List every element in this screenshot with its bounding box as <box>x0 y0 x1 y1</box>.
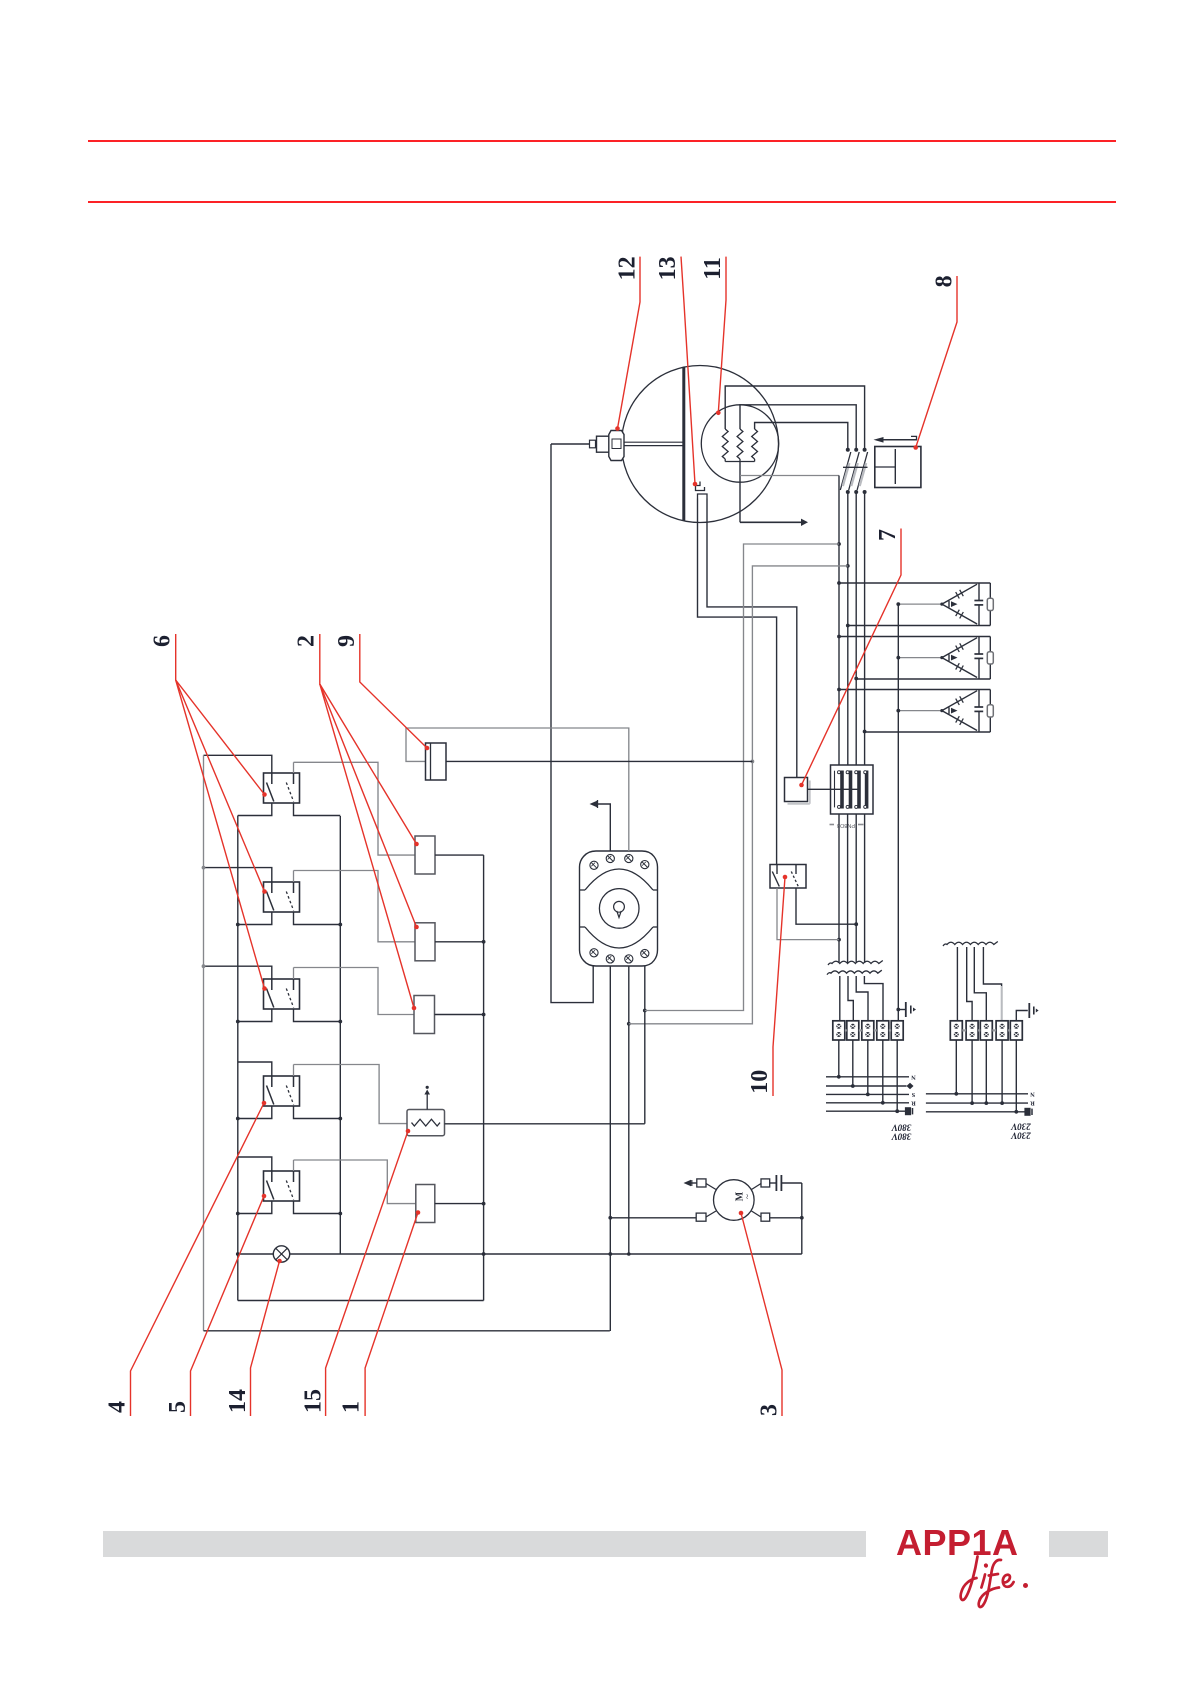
wire C1 out <box>435 1203 484 1205</box>
bus gray left <box>203 755 205 1331</box>
mains 380V line R <box>826 1102 909 1104</box>
wire contactor out 1 <box>838 814 840 963</box>
svg-text:APP1A: APP1A <box>896 1522 1019 1563</box>
pump vent arrow <box>691 1182 697 1184</box>
wire TB1 to PE <box>896 1040 898 1111</box>
header rule bottom <box>88 201 1116 203</box>
connector box 9 <box>426 743 447 780</box>
plug connector C <box>854 448 858 452</box>
wire TB2 to R b <box>985 1040 987 1103</box>
wire TR1 sec 4 <box>864 976 883 1021</box>
group unit U2 <box>839 636 990 638</box>
component C1 <box>416 1185 435 1223</box>
svg-text:14: 14 <box>225 1389 251 1413</box>
switch S3 <box>264 979 300 1009</box>
heater resistor R1 <box>722 429 728 459</box>
header rule top <box>88 140 1116 142</box>
wire TR2 out 4 <box>983 947 1001 1021</box>
group unit U1 <box>839 582 990 584</box>
mains 380V line PE <box>826 1110 905 1112</box>
solenoid valve EV3 <box>414 996 435 1034</box>
group unit U3 <box>839 689 990 691</box>
wire TB2 to N <box>955 1040 957 1094</box>
bus valve common <box>483 855 485 1300</box>
wire EV3 out <box>435 1014 484 1016</box>
svg-text:4: 4 <box>105 1401 131 1413</box>
svg-text:380V: 380V <box>891 1122 913 1132</box>
svg-text:7: 7 <box>875 529 901 541</box>
wire S1 lamp tap <box>293 762 295 773</box>
wire S3 feed <box>204 966 272 979</box>
wire S5 lamp tap <box>293 1160 295 1171</box>
svg-text:9: 9 <box>334 635 360 647</box>
transformer TR2 winding <box>943 942 998 947</box>
wire TR2 out 2 <box>967 947 972 1021</box>
pilot lamp L14 <box>238 1253 273 1255</box>
wire contactor out 4 <box>864 814 866 963</box>
svg-text:380V: 380V <box>891 1132 913 1142</box>
footer bar <box>103 1531 866 1557</box>
connector tie bar <box>843 466 868 468</box>
ECU screw terminals <box>590 861 598 869</box>
mains 380V line N <box>826 1076 909 1078</box>
phase wire C vertical <box>855 492 857 765</box>
bus black left <box>237 816 239 1301</box>
boiler vessel <box>622 366 779 523</box>
contactor KM1 <box>831 765 874 814</box>
svg-text:R: R <box>911 1099 916 1106</box>
wire thermostat right leg <box>707 499 797 778</box>
steam outlet arrow <box>740 521 801 523</box>
wire S4 bottom right <box>294 1106 341 1119</box>
safety thermostat T13 <box>696 482 705 491</box>
wire S4 to R15 <box>294 1065 408 1124</box>
heating element housing <box>701 405 778 482</box>
wire S3 to EV3 <box>294 968 415 1015</box>
wire bottom link U <box>238 1300 484 1302</box>
svg-text:8: 8 <box>931 275 957 287</box>
mains 380V line S <box>826 1093 909 1095</box>
pump capacitor <box>770 1182 777 1184</box>
svg-text:11: 11 <box>700 257 726 280</box>
bus switch returns <box>339 816 341 1254</box>
wire pump left <box>610 1217 696 1219</box>
svg-text:1: 1 <box>339 1401 365 1413</box>
wire EV2 out <box>435 941 484 943</box>
wire S4 lamp tap <box>293 1065 295 1077</box>
level probe rod <box>624 441 683 443</box>
wire S2 feed <box>204 868 272 882</box>
wire S10 right out <box>796 888 856 924</box>
wire thermostat left leg <box>698 499 777 865</box>
wire S2 to EV2 <box>294 871 416 942</box>
logo life script <box>961 1557 1014 1608</box>
ground symbol right <box>1016 1011 1028 1021</box>
wire heater net branch <box>645 544 839 1011</box>
svg-text:10: 10 <box>747 1070 773 1094</box>
pump terminal TR <box>761 1179 770 1187</box>
wire S2 lamp tap <box>293 871 295 883</box>
wire bottom frame <box>204 1330 610 1332</box>
wire TB2 to R c <box>1001 1040 1003 1103</box>
wire heater R2 to bundle <box>740 405 856 450</box>
svg-text:13: 13 <box>655 256 681 280</box>
mains 380V line 2 <box>826 1085 907 1087</box>
svg-text:6: 6 <box>149 635 175 647</box>
footer tab <box>1049 1531 1108 1557</box>
wire heater mid drop <box>739 462 741 523</box>
wire S4 feed <box>238 1062 272 1076</box>
wire ECU pump common <box>609 966 611 1331</box>
terminal block TB1 <box>833 1021 845 1040</box>
phase wire B vertical <box>847 492 849 765</box>
transformer TR1 primary <box>828 961 883 966</box>
boiler partition plate <box>682 367 685 521</box>
wire TR2 out 3 <box>974 947 986 1021</box>
ECU body <box>580 851 658 966</box>
switch S4 <box>264 1076 300 1106</box>
switch S1 <box>264 773 300 803</box>
wire S1 bottom right <box>294 803 341 816</box>
svg-text:N: N <box>1030 1090 1035 1097</box>
transformer TR1 secondary <box>827 970 882 975</box>
svg-text:230V: 230V <box>1010 1121 1032 1131</box>
svg-text:3: 3 <box>757 1404 783 1416</box>
heater resistor R3 <box>752 429 758 459</box>
wire coil net branch <box>629 566 848 1024</box>
svg-text:12: 12 <box>615 256 641 280</box>
cup warmer resistor R15 <box>407 1110 445 1136</box>
wire S3 bottom left <box>238 1009 272 1022</box>
wire TB1 to S <box>867 1040 869 1094</box>
wire S5 feed <box>238 1157 272 1171</box>
wire S4 bottom left <box>238 1106 272 1119</box>
pump terminal TL <box>697 1179 706 1187</box>
wire S3 bottom right <box>294 1009 341 1022</box>
wire contactor out 2 <box>847 814 849 963</box>
wire ECU heater net <box>644 966 646 1124</box>
wire probe to ECU <box>551 444 593 1003</box>
wire TB2 to R a <box>971 1040 973 1103</box>
wire heater mid tap gray <box>740 475 839 477</box>
ECU probe ref terminal <box>598 804 611 851</box>
wire TB2 to PE <box>1015 1040 1017 1112</box>
switch S5 <box>264 1171 300 1201</box>
wire TR2 out 1 <box>956 947 958 1021</box>
mains 230V line R <box>926 1102 1028 1104</box>
wire TB1 to R <box>882 1040 884 1103</box>
wire coil to contactor <box>808 788 860 790</box>
mains 230V line N <box>926 1093 1028 1095</box>
wire TR1 sec 1 <box>839 976 841 1021</box>
phase wire D vertical <box>864 492 866 765</box>
svg-text:15: 15 <box>300 1389 326 1413</box>
wire S10 left out <box>777 888 839 940</box>
wire S5 to C1 <box>294 1160 416 1204</box>
wire pump right <box>770 1217 802 1219</box>
plug connector B <box>846 448 850 452</box>
junction box J8 <box>875 447 921 488</box>
wire ECU top feed <box>406 728 629 851</box>
master switch S10 <box>770 865 806 889</box>
wire S1 to EV1 <box>294 762 416 855</box>
solenoid valve EV1 <box>415 836 435 874</box>
wire TR1 sec 2 <box>848 976 853 1021</box>
wire EV1 out <box>435 854 484 856</box>
svg-text:R: R <box>1030 1100 1035 1107</box>
wire lamp common <box>290 1253 802 1255</box>
svg-text:5: 5 <box>165 1401 191 1413</box>
wire heater R1 to bundle <box>725 386 864 450</box>
wire TB1 to N <box>838 1040 840 1077</box>
contactor part label <box>830 824 835 826</box>
wire S1 feed <box>204 755 272 773</box>
wire TB1 to line2 <box>852 1040 854 1086</box>
pump terminal BR <box>761 1213 770 1221</box>
wire S2 bottom right <box>294 912 341 925</box>
wire box9 right <box>446 760 752 762</box>
level probe P12 <box>551 443 590 445</box>
wire contactor out 3 <box>855 814 857 963</box>
svg-text:N: N <box>911 1073 916 1080</box>
wire TR1 sec 3 <box>856 976 868 1021</box>
terminal block TB2 <box>950 1021 962 1040</box>
wire S5 bottom left <box>238 1201 272 1214</box>
heater bottom bar <box>724 459 726 462</box>
wire heater R3 to bundle <box>755 423 848 450</box>
solenoid valve EV2 <box>415 923 435 961</box>
heater resistor R2 <box>737 429 743 459</box>
wire R15 out <box>445 1123 645 1125</box>
switch S2 <box>264 882 300 912</box>
phase wire A vertical <box>838 476 840 766</box>
svg-text:2: 2 <box>294 635 320 647</box>
svg-text:~: ~ <box>743 1194 753 1199</box>
wire ECU coil net <box>628 966 630 1254</box>
relay coil K7 <box>788 803 810 805</box>
wire S3 lamp tap <box>293 968 295 980</box>
wire S1 bottom left <box>238 803 272 816</box>
svg-text:230V: 230V <box>1010 1131 1032 1141</box>
wire S2 bottom left <box>238 912 272 925</box>
svg-text:S: S <box>911 1091 915 1098</box>
ground symbol left <box>898 1009 906 1011</box>
pump motor M3 <box>714 1180 755 1221</box>
mains 230V line PE <box>926 1111 1025 1113</box>
plug connector D <box>863 448 867 452</box>
wire S5 bottom right <box>294 1201 341 1214</box>
wire pump cap drop <box>801 1183 803 1254</box>
box J8 arrow line <box>876 439 917 441</box>
unit common vertical <box>897 604 899 1021</box>
pump terminal BL <box>696 1213 706 1221</box>
